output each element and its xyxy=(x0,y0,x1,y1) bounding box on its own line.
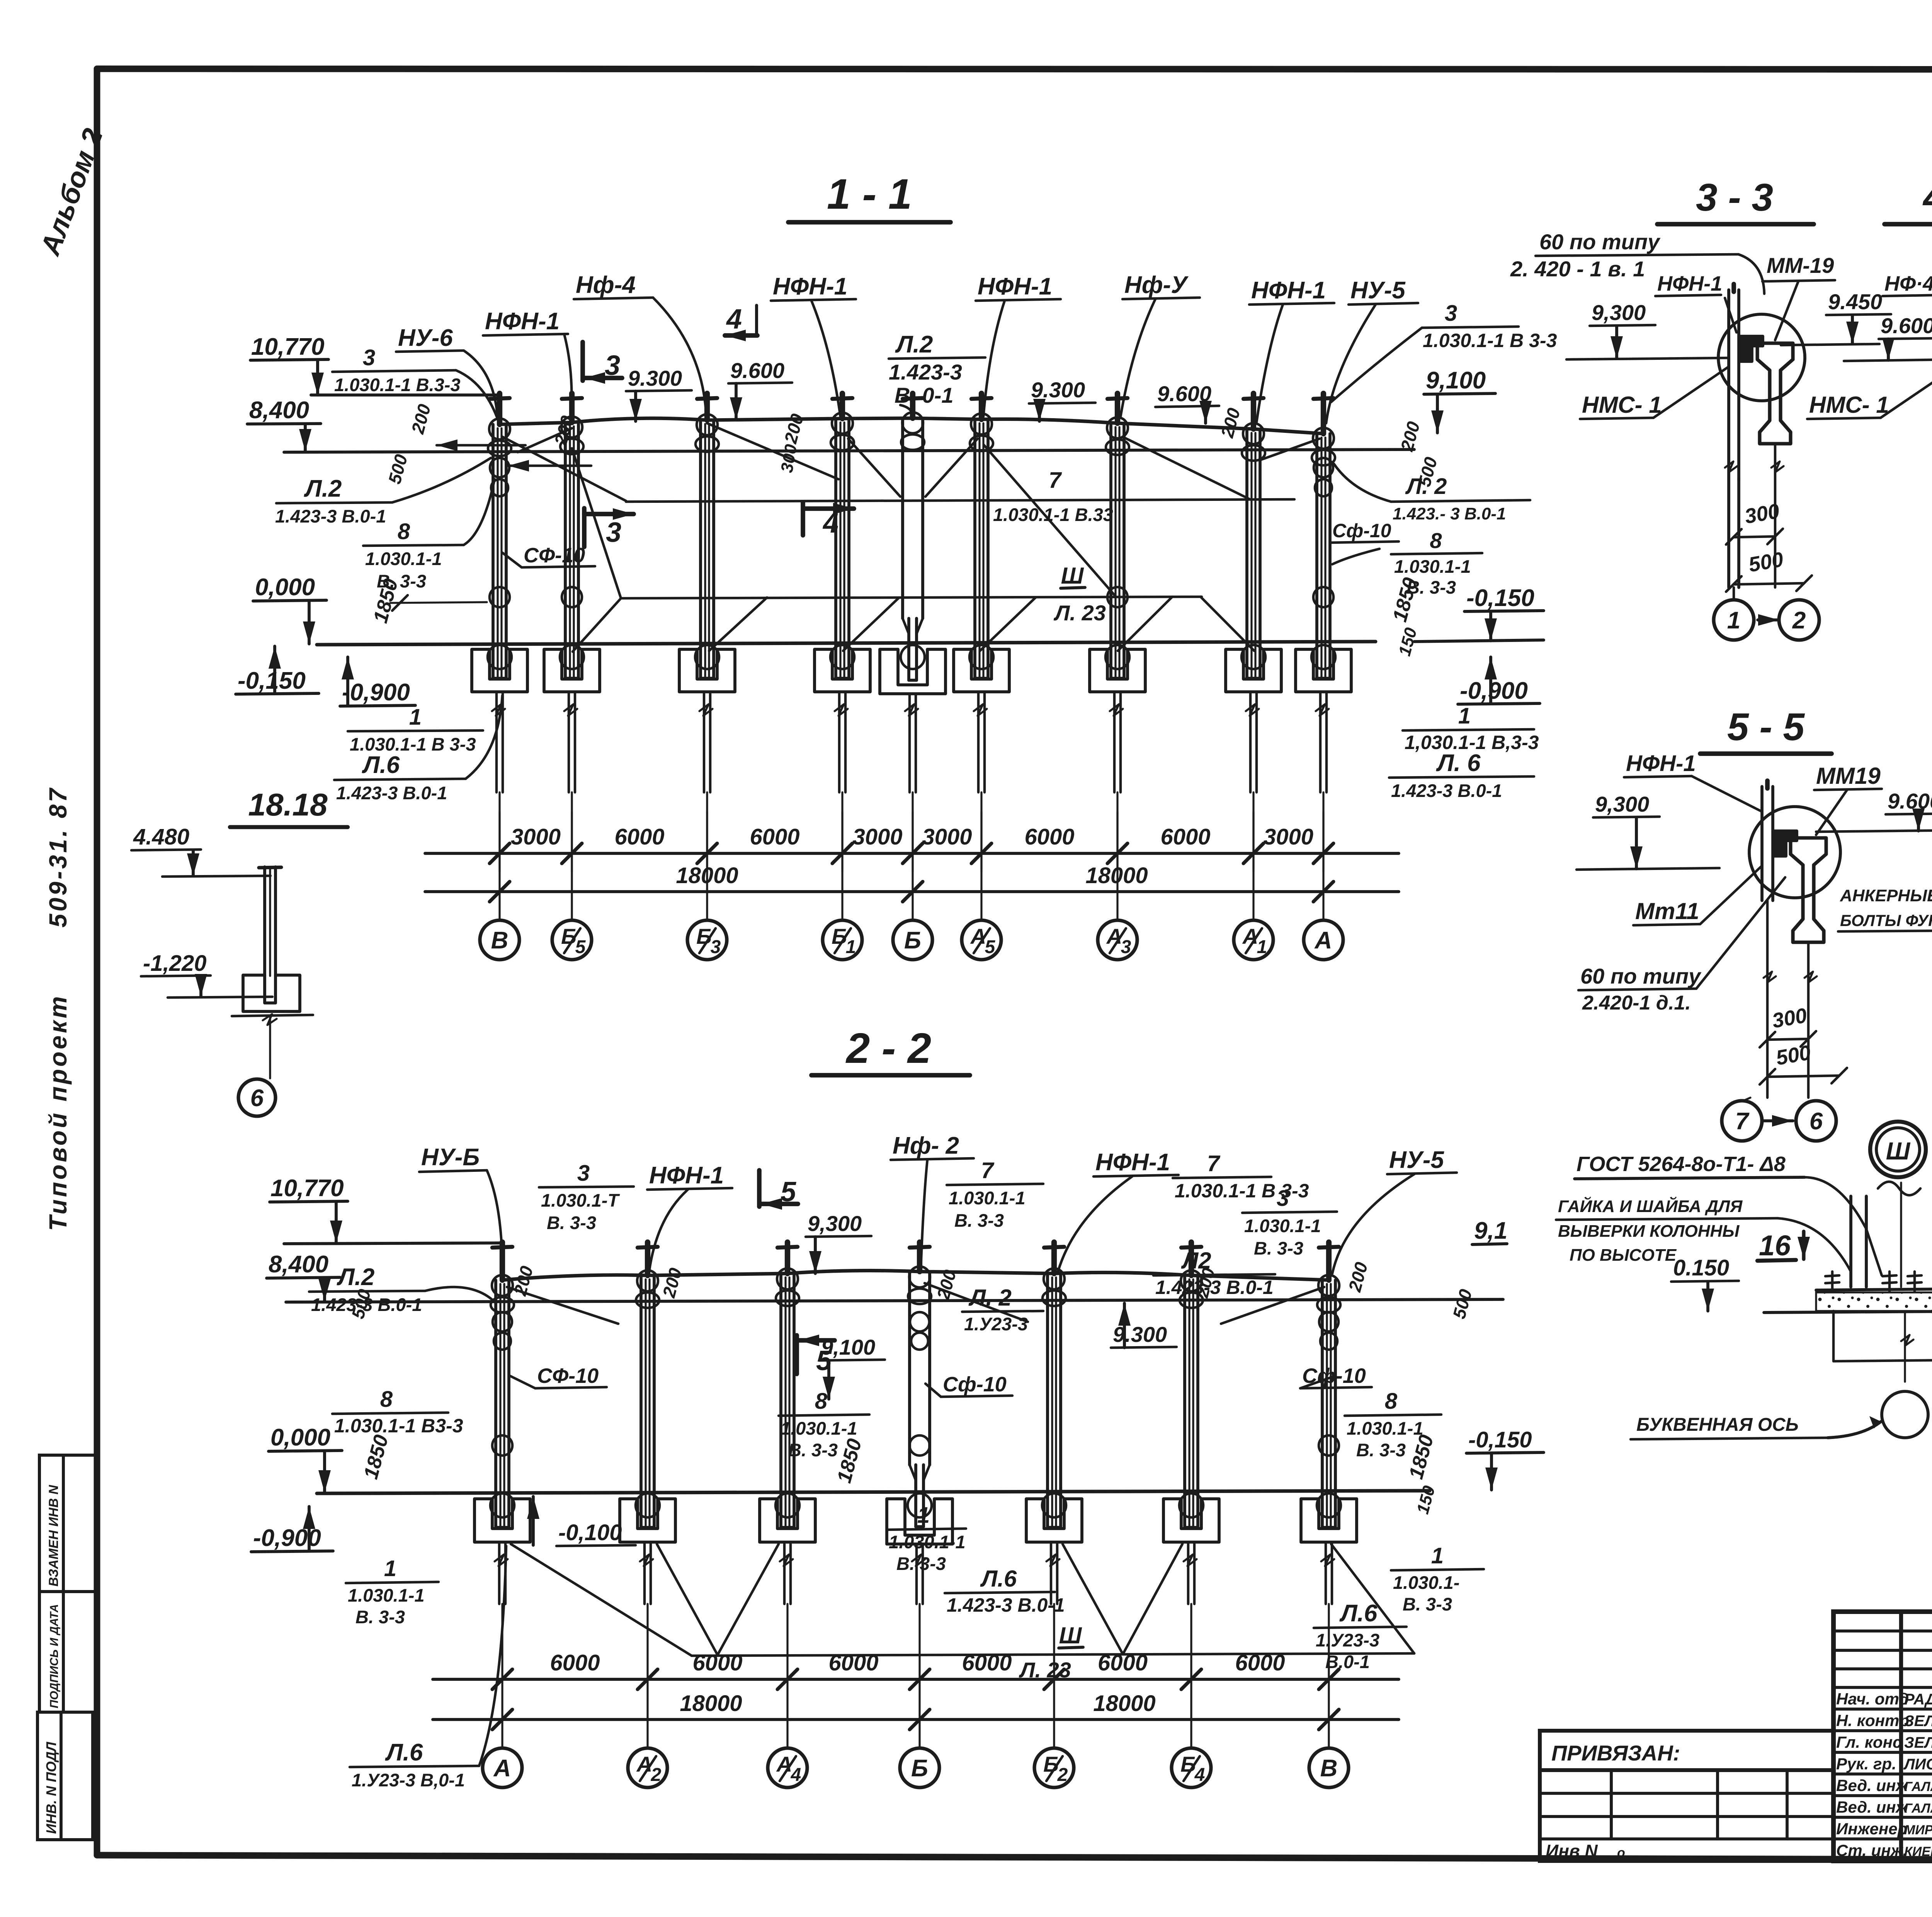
svg-text:Ст. инж.: Ст. инж. xyxy=(1836,1841,1907,1859)
foundation column 3 section 1-1 xyxy=(679,649,735,692)
svg-text:Нф-4: Нф-4 xyxy=(576,272,636,298)
svg-text:1: 1 xyxy=(384,1556,396,1581)
grid line 3 section 2-2 xyxy=(786,1604,788,1748)
svg-text:1.423-3 В.0-1: 1.423-3 В.0-1 xyxy=(275,506,386,526)
foundation column 2 section 2-2 xyxy=(620,1499,675,1542)
svg-text:В. 3-3: В. 3-3 xyxy=(788,1440,838,1460)
svg-text:9.450: 9.450 xyxy=(1828,289,1882,314)
column axis 5 section 1-1 xyxy=(910,393,915,418)
section mark 4 bottom xyxy=(801,502,805,535)
section 2-2 roof line xyxy=(502,1270,1329,1280)
svg-text:НФ·4: НФ·4 xyxy=(1884,272,1932,295)
svg-text:9.600: 9.600 xyxy=(1888,789,1932,813)
column axis 1 section 1-1 xyxy=(497,393,502,424)
section 2-2 braces xyxy=(507,1287,618,1324)
svg-text:ПРИВЯЗАН:: ПРИВЯЗАН: xyxy=(1551,1741,1680,1765)
2-2 section mark 5 bottom + 9.100 xyxy=(794,1335,799,1374)
section 2-2 floor line xyxy=(317,1491,1430,1493)
svg-text:Н. контр: Н. контр xyxy=(1836,1711,1909,1730)
svg-text:НФН-1: НФН-1 xyxy=(1095,1149,1170,1176)
svg-text:Л.2: Л.2 xyxy=(304,475,342,502)
node III anchor bolts xyxy=(1831,1272,1834,1293)
svg-text:ММ19: ММ19 xyxy=(1816,763,1881,789)
svg-text:Нач. отд: Нач. отд xyxy=(1836,1690,1909,1708)
grid line 6 section 1-1 xyxy=(980,792,982,920)
svg-text:4: 4 xyxy=(791,1765,801,1785)
svg-text:1.423-3 В.0-1: 1.423-3 В.0-1 xyxy=(1391,780,1502,801)
svg-text:НФН-1: НФН-1 xyxy=(978,273,1052,300)
svg-text:6000: 6000 xyxy=(750,824,799,850)
node III lower extension xyxy=(1832,1311,1835,1360)
svg-text:Сф-10: Сф-10 xyxy=(943,1373,1007,1396)
svg-text:НМС- 1: НМС- 1 xyxy=(1582,392,1662,418)
svg-text:Л. 23: Л. 23 xyxy=(1053,601,1106,625)
svg-text:А: А xyxy=(493,1755,511,1782)
section mark 3 top xyxy=(580,342,585,381)
svg-text:Рук. гр.: Рук. гр. xyxy=(1836,1755,1896,1773)
svg-text:6: 6 xyxy=(1810,1108,1823,1135)
svg-text:1: 1 xyxy=(1257,937,1267,957)
svg-text:1.У23-3: 1.У23-3 xyxy=(1316,1630,1379,1650)
svg-text:9.600: 9.600 xyxy=(1881,313,1932,338)
svg-text:3: 3 xyxy=(577,1161,590,1186)
svg-text:В. 3-3: В. 3-3 xyxy=(1356,1440,1406,1460)
svg-text:1.423.- 3 В.0-1: 1.423.- 3 В.0-1 xyxy=(1393,504,1506,523)
svg-text:3: 3 xyxy=(606,517,621,548)
svg-text:Вед. инж: Вед. инж xyxy=(1836,1798,1909,1816)
svg-text:-0,900: -0,900 xyxy=(1460,678,1528,704)
svg-text:-0,150: -0,150 xyxy=(1468,1427,1532,1452)
grid line 1 section 2-2 xyxy=(501,1604,503,1748)
svg-text:ГАЛАКТИОНОВА: ГАЛАКТИОНОВА xyxy=(1904,1801,1932,1816)
svg-text:1.030.1-1: 1.030.1-1 xyxy=(1244,1216,1321,1236)
section 1-1 dimension line 3000/6000 xyxy=(425,852,1399,855)
svg-text:Мm11: Мm11 xyxy=(1635,898,1699,924)
svg-text:-0,900: -0,900 xyxy=(342,679,410,706)
grid line 3 section 1-1 xyxy=(706,792,708,920)
grid line 4 section 2-2 xyxy=(918,1604,920,1748)
svg-text:2. 420 - 1 в. 1: 2. 420 - 1 в. 1 xyxy=(1510,257,1645,281)
svg-text:1: 1 xyxy=(846,937,856,957)
svg-text:1.030.1-1 В.33: 1.030.1-1 В.33 xyxy=(993,504,1113,525)
svg-text:Б: Б xyxy=(904,927,921,954)
svg-text:0,000: 0,000 xyxy=(255,574,315,601)
svg-text:60 по типу: 60 по типу xyxy=(1580,964,1702,988)
column axis 6 section 2-2 xyxy=(1189,1242,1194,1275)
svg-text:Л.6: Л.6 xyxy=(1339,1600,1378,1627)
svg-text:1.030.1-1 В 3-3: 1.030.1-1 В 3-3 xyxy=(1423,330,1557,351)
svg-text:ПО ВЫСОТЕ: ПО ВЫСОТЕ xyxy=(1570,1246,1677,1265)
foundation column 2 section 1-1 xyxy=(544,649,600,692)
svg-text:2: 2 xyxy=(1792,607,1806,634)
section 1-1 roof beam line xyxy=(500,418,1323,434)
svg-text:4.480: 4.480 xyxy=(133,824,189,850)
section mark 3 bottom xyxy=(582,508,587,547)
svg-text:2: 2 xyxy=(651,1765,662,1785)
svg-text:0,000: 0,000 xyxy=(270,1424,330,1451)
foundation column 3 section 2-2 xyxy=(760,1499,815,1542)
section 1-1 upper braces xyxy=(502,437,626,501)
svg-text:1.423-3 В.0-1: 1.423-3 В.0-1 xyxy=(336,783,447,803)
svg-text:ИНВ. N ПОДЛ: ИНВ. N ПОДЛ xyxy=(43,1742,59,1834)
svg-text:НУ-Б: НУ-Б xyxy=(421,1144,480,1171)
svg-text:НФН-1: НФН-1 xyxy=(485,308,560,335)
svg-text:Нф- 2: Нф- 2 xyxy=(893,1132,959,1159)
svg-text:60 по типу: 60 по типу xyxy=(1539,230,1661,254)
section 1-1 grid bubbles xyxy=(480,920,519,960)
column axis 5 section 2-2 xyxy=(1051,1242,1057,1273)
svg-text:Л.6: Л.6 xyxy=(980,1566,1017,1592)
border frame xyxy=(97,69,1932,70)
svg-text:18000: 18000 xyxy=(680,1691,742,1716)
svg-text:7: 7 xyxy=(1735,1108,1750,1135)
column axis 2 section 2-2 xyxy=(645,1242,650,1275)
svg-text:В.0-1: В.0-1 xyxy=(1325,1651,1370,1672)
svg-text:9.300: 9.300 xyxy=(1031,378,1085,402)
svg-text:1.030.1-1: 1.030.1-1 xyxy=(365,548,442,569)
svg-text:6000: 6000 xyxy=(550,1650,600,1675)
svg-text:Ш: Ш xyxy=(1061,563,1084,589)
title block outer xyxy=(1833,1612,1932,1861)
grid bubble 6 section 18-18 xyxy=(238,1079,276,1116)
svg-text:18000: 18000 xyxy=(1093,1691,1155,1716)
svg-text:В. 3-3: В. 3-3 xyxy=(954,1210,1004,1231)
section 1-1 lower braces xyxy=(573,598,621,652)
grid line 2 section 1-1 xyxy=(571,792,573,920)
svg-text:6000: 6000 xyxy=(1098,1650,1148,1675)
svg-text:НФН-1: НФН-1 xyxy=(1626,751,1696,776)
column axis 2 section 1-1 xyxy=(569,393,575,422)
column axis 3 section 1-1 xyxy=(704,393,710,420)
grid line 5 section 1-1 xyxy=(912,792,913,920)
svg-text:3000: 3000 xyxy=(1264,824,1313,850)
grid line 4 section 1-1 xyxy=(841,792,843,920)
svg-text:16: 16 xyxy=(1759,1229,1791,1262)
foundation column 6 section 2-2 xyxy=(1163,1499,1219,1542)
svg-text:1.423-3: 1.423-3 xyxy=(889,360,962,384)
svg-text:Ш: Ш xyxy=(1886,1137,1911,1165)
svg-text:1.030.1-1: 1.030.1-1 xyxy=(781,1418,857,1439)
svg-text:Вед. инж: Вед. инж xyxy=(1836,1776,1909,1794)
svg-text:6000: 6000 xyxy=(828,1650,878,1675)
section 1-1 line L.23 xyxy=(621,597,1202,598)
svg-text:6000: 6000 xyxy=(962,1650,1012,1675)
svg-text:В. 3-3: В. 3-3 xyxy=(355,1607,405,1627)
svg-text:1.У23-3 В,0-1: 1.У23-3 В,0-1 xyxy=(352,1770,465,1790)
section 2-2 grid bubbles xyxy=(483,1748,522,1788)
svg-text:18.18: 18.18 xyxy=(248,787,328,822)
svg-text:Л.6: Л.6 xyxy=(385,1739,423,1766)
svg-text:-0,150: -0,150 xyxy=(1466,585,1534,611)
svg-text:1: 1 xyxy=(409,705,422,730)
svg-text:9,1: 9,1 xyxy=(1474,1217,1507,1244)
node III mark xyxy=(1870,1122,1926,1177)
svg-text:3: 3 xyxy=(363,345,375,370)
svg-text:5 - 5: 5 - 5 xyxy=(1727,705,1805,749)
svg-text:1.030.1-1: 1.030.1-1 xyxy=(348,1585,425,1605)
svg-text:А: А xyxy=(1314,927,1332,954)
grid bubbles 5-5 xyxy=(1722,1101,1762,1141)
grid line 7 section 1-1 xyxy=(1116,792,1118,920)
column section 18-18 xyxy=(263,867,266,976)
svg-text:5: 5 xyxy=(985,937,996,957)
section 2-2 dimension line 18000 xyxy=(433,1718,1399,1721)
svg-text:10,770: 10,770 xyxy=(270,1175,344,1202)
grid line 6 section 2-2 xyxy=(1190,1604,1192,1748)
grid line 5 section 2-2 xyxy=(1053,1604,1055,1748)
svg-text:ГОСТ 5264-8о-Т1- Δ8: ГОСТ 5264-8о-Т1- Δ8 xyxy=(1577,1153,1786,1176)
svg-text:БУКВЕННАЯ ОСЬ: БУКВЕННАЯ ОСЬ xyxy=(1636,1415,1799,1435)
section 2-2 line L.23 xyxy=(692,1653,1414,1656)
svg-text:6000: 6000 xyxy=(1024,824,1074,850)
svg-text:ГАЙКА И ШАЙБА ДЛЯ: ГАЙКА И ШАЙБА ДЛЯ xyxy=(1558,1196,1743,1216)
svg-text:СФ-10: СФ-10 xyxy=(524,544,585,567)
svg-text:9.300: 9.300 xyxy=(1113,1322,1167,1347)
svg-text:СФ-10: СФ-10 xyxy=(537,1364,599,1388)
svg-text:3000: 3000 xyxy=(922,824,972,850)
svg-text:НФН-1: НФН-1 xyxy=(773,273,847,300)
svg-text:8: 8 xyxy=(815,1389,828,1414)
svg-text:18000: 18000 xyxy=(676,863,738,888)
bukvennaya os circle node III xyxy=(1882,1391,1928,1438)
svg-text:Типовой проект: Типовой проект xyxy=(44,994,72,1231)
svg-text:1.030.1-1: 1.030.1-1 xyxy=(1347,1418,1423,1439)
crane rail 5-5 xyxy=(1791,838,1826,942)
section 1-1 tie line (label 7 underline) xyxy=(626,499,1294,502)
svg-text:1 - 1: 1 - 1 xyxy=(827,170,912,218)
svg-text:В. 3-3: В. 3-3 xyxy=(547,1212,596,1233)
svg-text:НФН-1: НФН-1 xyxy=(649,1162,724,1189)
svg-text:4: 4 xyxy=(1194,1765,1205,1785)
svg-text:В: В xyxy=(491,927,509,954)
svg-text:КИЕВЛЯНЦЕВА: КИЕВЛЯНЦЕВА xyxy=(1904,1844,1932,1859)
svg-text:9,300: 9,300 xyxy=(808,1211,862,1236)
column axis 7 section 1-1 xyxy=(1115,393,1120,423)
svg-text:ЗЕЛЕНСКИЙ: ЗЕЛЕНСКИЙ xyxy=(1904,1733,1932,1751)
column axis 8 section 1-1 xyxy=(1251,393,1256,429)
svg-text:2.420-1 д.1.: 2.420-1 д.1. xyxy=(1582,992,1691,1014)
column axis 7 section 2-2 xyxy=(1326,1242,1332,1280)
svg-text:6000: 6000 xyxy=(614,824,664,850)
svg-text:ЛИСУНОВ: ЛИСУНОВ xyxy=(1903,1756,1932,1773)
foundation column 1 section 2-2 xyxy=(474,1499,530,1542)
svg-text:В: В xyxy=(1320,1755,1338,1782)
svg-text:3 - 3: 3 - 3 xyxy=(1696,176,1773,219)
svg-text:6000: 6000 xyxy=(1235,1650,1285,1675)
privyazan table xyxy=(1540,1770,1833,1861)
svg-text:АНКЕРНЫЕ: АНКЕРНЫЕ xyxy=(1840,886,1932,905)
svg-text:ВЫВЕРКИ КОЛОННЫ: ВЫВЕРКИ КОЛОННЫ xyxy=(1558,1222,1740,1241)
svg-text:НМС- 1: НМС- 1 xyxy=(1809,392,1889,418)
svg-text:ЗЕЛЕНСКИЙ: ЗЕЛЕНСКИЙ xyxy=(1904,1711,1932,1730)
svg-text:1.030.1-Т: 1.030.1-Т xyxy=(541,1190,620,1210)
svg-text:1.030.1-1: 1.030.1-1 xyxy=(949,1188,1026,1208)
grid line 2 section 2-2 xyxy=(646,1604,648,1748)
svg-text:1: 1 xyxy=(917,1503,930,1528)
grid line 8 section 1-1 xyxy=(1252,792,1254,920)
foundation section 18-18 xyxy=(243,975,300,1011)
foundation column 1 section 1-1 xyxy=(472,649,527,692)
svg-text:1.030.1-1 В.3-3: 1.030.1-1 В.3-3 xyxy=(334,375,461,395)
foundation column 5 section 1-1 xyxy=(880,649,946,694)
svg-text:8,400: 8,400 xyxy=(249,397,309,424)
svg-text:2 - 2: 2 - 2 xyxy=(845,1025,931,1072)
svg-text:1.030.1-1: 1.030.1-1 xyxy=(1394,556,1471,577)
section 1-1 level line 10.770 xyxy=(311,393,500,397)
svg-text:ММ-19: ММ-19 xyxy=(1767,253,1834,278)
svg-text:8: 8 xyxy=(398,519,410,544)
svg-text:3000: 3000 xyxy=(511,824,561,850)
svg-text:НУ-6: НУ-6 xyxy=(398,325,453,351)
svg-text:8: 8 xyxy=(380,1387,393,1412)
svg-text:1.030.1-: 1.030.1- xyxy=(1393,1572,1459,1593)
svg-text:6000: 6000 xyxy=(692,1650,742,1675)
grid line 1 section 1-1 xyxy=(498,792,500,920)
svg-text:7: 7 xyxy=(1207,1151,1221,1176)
svg-text:9.600: 9.600 xyxy=(730,358,784,383)
svg-text:МИРОШНИЧЕНКО: МИРОШНИЧЕНКО xyxy=(1904,1823,1932,1837)
privyazan box xyxy=(1540,1731,1833,1770)
node III ground line xyxy=(1764,1310,1932,1313)
svg-text:18000: 18000 xyxy=(1085,863,1148,888)
foundation column 7 section 2-2 xyxy=(1301,1499,1357,1542)
grid line 9 section 1-1 xyxy=(1322,792,1324,920)
svg-text:3: 3 xyxy=(1121,937,1131,957)
svg-text:9,100: 9,100 xyxy=(1426,367,1486,394)
wall panel 5-5 xyxy=(1760,787,1764,901)
svg-text:-0,100: -0,100 xyxy=(558,1520,622,1545)
svg-text:1.423-3 В.0-1: 1.423-3 В.0-1 xyxy=(947,1594,1065,1616)
svg-text:БОЛТЫ ФУНДАМЕНТА: БОЛТЫ ФУНДАМЕНТА xyxy=(1840,911,1932,930)
svg-text:ПОДПИСЬ И ДАТА: ПОДПИСЬ И ДАТА xyxy=(48,1604,61,1708)
svg-text:Л. 23: Л. 23 xyxy=(1019,1658,1071,1682)
svg-text:НУ-5: НУ-5 xyxy=(1389,1147,1444,1173)
svg-text:5: 5 xyxy=(575,937,586,957)
foundation column 5 section 2-2 xyxy=(1026,1499,1082,1542)
section 1-1 dimension line 18000 xyxy=(425,890,1399,893)
foundation column 4 section 2-2 xyxy=(887,1499,952,1544)
svg-text:1: 1 xyxy=(1727,607,1740,634)
column axis 6 section 1-1 xyxy=(979,393,984,419)
svg-text:9,100: 9,100 xyxy=(821,1335,875,1359)
svg-text:Инв N: Инв N xyxy=(1546,1841,1598,1861)
svg-text:ГАЛАКТИОНОВА: ГАЛАКТИОНОВА xyxy=(1904,1779,1932,1794)
svg-text:9.300: 9.300 xyxy=(628,366,682,390)
section 1-1 floor line 0.000 xyxy=(317,642,1376,645)
svg-text:В. 3-3: В. 3-3 xyxy=(1403,1594,1452,1614)
svg-text:9,300: 9,300 xyxy=(1595,792,1649,816)
node III column legs xyxy=(1849,1196,1852,1287)
crane rail profile 3 - 3 xyxy=(1757,343,1793,444)
svg-text:6000: 6000 xyxy=(1160,824,1210,850)
svg-text:Сф-10: Сф-10 xyxy=(1332,520,1391,541)
svg-text:6: 6 xyxy=(250,1085,264,1112)
svg-text:1.030.1-1: 1.030.1-1 xyxy=(889,1532,966,1552)
section 2-2 dimension line 6000 xyxy=(433,1678,1399,1681)
svg-text:Инженер: Инженер xyxy=(1836,1820,1907,1838)
svg-text:1: 1 xyxy=(1431,1543,1444,1568)
svg-text:10,770: 10,770 xyxy=(251,334,325,360)
section 2-2 level line 10.770 xyxy=(284,1243,502,1244)
svg-text:4: 4 xyxy=(726,304,742,335)
margin stamp boxes xyxy=(39,1455,97,1592)
svg-text:НУ-5: НУ-5 xyxy=(1350,277,1406,304)
column axis 4 section 2-2 xyxy=(917,1242,922,1272)
lower lines 5-5 xyxy=(1766,901,1769,1098)
column axis 4 section 1-1 xyxy=(840,393,845,419)
svg-text:о: о xyxy=(1617,1845,1625,1860)
svg-text:Л. 6: Л. 6 xyxy=(1436,750,1481,776)
column axis 1 section 2-2 xyxy=(500,1242,505,1280)
foundation column 9 section 1-1 xyxy=(1296,649,1351,692)
svg-text:7: 7 xyxy=(981,1158,995,1183)
svg-text:0.150: 0.150 xyxy=(1673,1255,1729,1280)
svg-text:8,400: 8,400 xyxy=(269,1251,328,1278)
svg-text:Б: Б xyxy=(911,1755,928,1782)
section 2-2 level line 8.400 xyxy=(286,1299,1503,1302)
svg-text:9,300: 9,300 xyxy=(1592,300,1646,325)
column edge lines 3 - 3 xyxy=(1727,290,1730,479)
svg-text:Л.2: Л.2 xyxy=(337,1264,374,1290)
svg-text:1: 1 xyxy=(1458,703,1471,729)
svg-text:Л. 2: Л. 2 xyxy=(968,1285,1012,1311)
foundation column 6 section 1-1 xyxy=(954,649,1009,692)
svg-text:Л.6: Л.6 xyxy=(362,752,400,778)
svg-text:3: 3 xyxy=(711,937,721,957)
svg-text:8: 8 xyxy=(1385,1389,1398,1414)
node III base plate xyxy=(1816,1289,1932,1290)
svg-text:НФН-1: НФН-1 xyxy=(1657,272,1722,295)
column axis 3 section 2-2 xyxy=(785,1242,790,1273)
svg-text:В. 0-1: В. 0-1 xyxy=(895,383,954,407)
svg-text:-1,220: -1,220 xyxy=(143,951,206,976)
svg-text:3: 3 xyxy=(1277,1186,1289,1211)
svg-text:8: 8 xyxy=(1430,528,1442,553)
foundation column 8 section 1-1 xyxy=(1226,649,1281,692)
foundation column 7 section 1-1 xyxy=(1090,649,1145,692)
foundation column 4 section 1-1 xyxy=(815,649,870,692)
svg-text:Л.2: Л.2 xyxy=(895,331,933,358)
svg-text:В. 3-3: В. 3-3 xyxy=(1254,1238,1303,1258)
grid line 7 section 2-2 xyxy=(1328,1604,1330,1748)
svg-text:Нф-У: Нф-У xyxy=(1124,272,1189,298)
section 1-1 level line 8.400 xyxy=(284,449,1414,452)
svg-text:3000: 3000 xyxy=(852,824,902,850)
svg-text:Гл. конс: Гл. конс xyxy=(1836,1733,1901,1751)
svg-text:2: 2 xyxy=(1057,1765,1068,1785)
svg-text:1.030.1-1 В3-3: 1.030.1-1 В3-3 xyxy=(334,1415,463,1437)
svg-text:В. 3-3: В. 3-3 xyxy=(896,1553,946,1574)
svg-text:3: 3 xyxy=(1445,301,1457,326)
svg-text:1.У23-3: 1.У23-3 xyxy=(964,1314,1028,1334)
grid bubbles 3 - 3 xyxy=(1733,587,1735,600)
svg-text:РАДЬКО: РАДЬКО xyxy=(1904,1691,1932,1708)
svg-text:509-31. 87: 509-31. 87 xyxy=(44,786,72,928)
svg-text:ВЗАМЕН ИНВ N: ВЗАМЕН ИНВ N xyxy=(46,1485,61,1587)
svg-text:Ш: Ш xyxy=(1059,1622,1082,1648)
svg-text:-0,150: -0,150 xyxy=(238,667,306,694)
svg-text:4 - 4: 4 - 4 xyxy=(1922,176,1932,219)
svg-text:НФН-1: НФН-1 xyxy=(1251,277,1326,304)
column axis 9 section 1-1 xyxy=(1321,393,1326,434)
svg-text:7: 7 xyxy=(1049,468,1062,493)
2-2 section mark 5 top xyxy=(757,1170,762,1207)
